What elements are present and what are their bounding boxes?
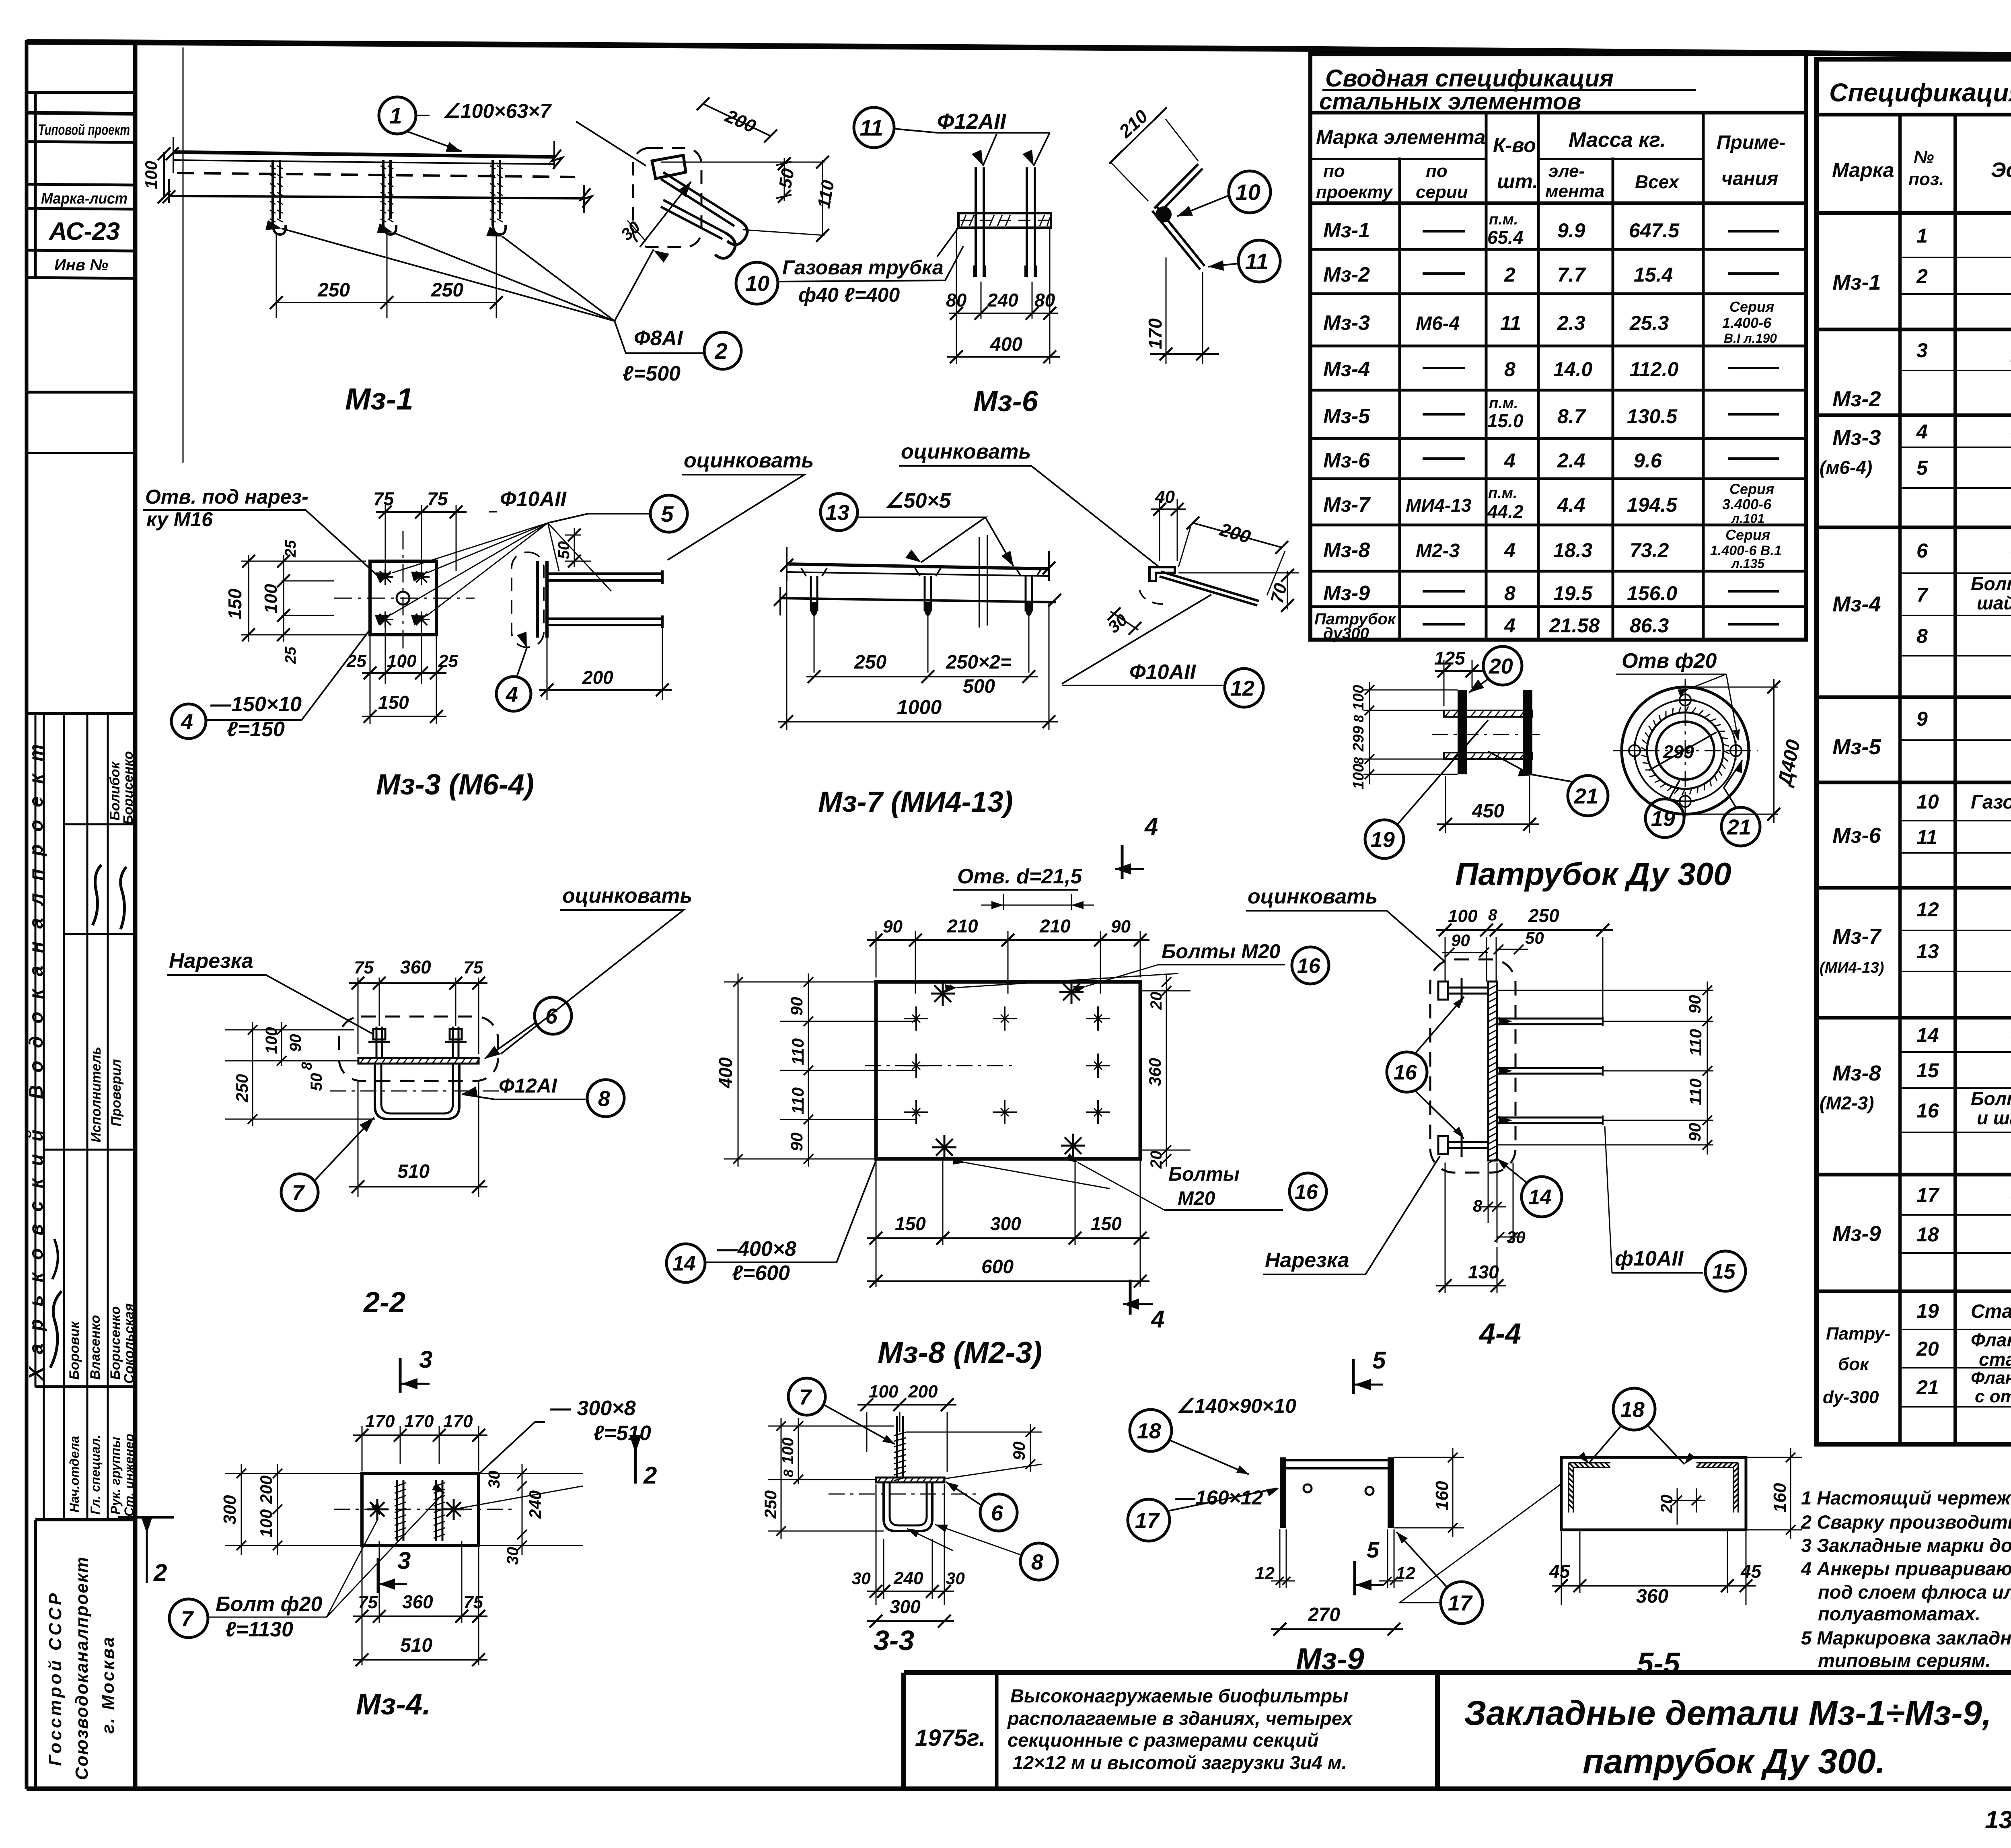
svg-text:200: 200 bbox=[1217, 519, 1253, 547]
svg-text:Отв. под нарез-: Отв. под нарез- bbox=[145, 486, 308, 508]
svg-text:100: 100 bbox=[1350, 764, 1367, 789]
svg-text:44.2: 44.2 bbox=[1487, 501, 1524, 522]
title block divider year/text bbox=[995, 1673, 999, 1789]
4-4 dim 130 bbox=[1445, 1163, 1497, 1293]
svg-text:шайбой: шайбой bbox=[1977, 593, 2011, 613]
svg-text:4: 4 bbox=[506, 682, 518, 706]
svg-text:Мз-1: Мз-1 bbox=[1832, 270, 1881, 294]
svg-text:200: 200 bbox=[257, 1476, 276, 1504]
svg-text:45: 45 bbox=[1740, 1561, 1762, 1582]
svg-text:патрубок Ду 300.: патрубок Ду 300. bbox=[1583, 1742, 1886, 1781]
patrubok centerline bbox=[1432, 734, 1544, 735]
flange centerlines bbox=[1613, 750, 1758, 751]
detail dim 200 slanted bbox=[703, 104, 771, 136]
svg-text:(м6-4): (м6-4) bbox=[1820, 457, 1872, 478]
svg-text:—160×12: —160×12 bbox=[1175, 1486, 1263, 1509]
box divider empty cell bbox=[27, 391, 135, 394]
5-5 weld hatch right corner bbox=[1696, 1463, 1738, 1509]
M3-7 anchor at 2307 bbox=[925, 576, 931, 611]
svg-text:4: 4 bbox=[1504, 449, 1515, 472]
svg-text:Болт М20 с гайкой и: Болт М20 с гайкой и bbox=[1971, 573, 2011, 594]
svg-text:по: по bbox=[1323, 161, 1345, 181]
svg-text:25: 25 bbox=[438, 651, 458, 671]
svg-text:∠100×63×7: ∠100×63×7 bbox=[442, 100, 552, 122]
svg-text:Боровик: Боровик bbox=[67, 1321, 82, 1380]
svg-text:14.0: 14.0 bbox=[1553, 358, 1593, 381]
svg-text:10: 10 bbox=[745, 272, 769, 296]
table1 line below title bbox=[1310, 111, 1806, 115]
svg-text:ф10АII: ф10АII bbox=[1615, 1247, 1684, 1270]
table1 subheader split line left bbox=[1310, 158, 1486, 160]
M3-8 callout 14 + label bbox=[666, 1244, 705, 1282]
detail angle slanted leg top bbox=[661, 172, 738, 226]
svg-text:секционные с размерами секций: секционные с размерами секций bbox=[1008, 1729, 1319, 1751]
svg-text:Болты: Болты bbox=[1168, 1164, 1240, 1185]
svg-text:8: 8 bbox=[298, 1062, 315, 1070]
svg-text:9: 9 bbox=[1916, 708, 1928, 730]
signature table top bbox=[27, 712, 135, 715]
M3-6 rod 1 bbox=[976, 167, 984, 277]
M3-8 big bolt marks bbox=[931, 982, 955, 1006]
svg-text:Инв №: Инв № bbox=[54, 256, 108, 274]
svg-text:150: 150 bbox=[1091, 1213, 1122, 1234]
table1 vertical col lines bbox=[1398, 159, 1401, 640]
svg-text:Мз-5: Мз-5 bbox=[1323, 405, 1370, 428]
5-5 dim 20 bbox=[1677, 1488, 1696, 1525]
signature squiggle3 bbox=[50, 1291, 62, 1368]
svg-text:3 Закладные марки должны быть: 3 Закладные марки должны быть оцинкованы… bbox=[1801, 1535, 2011, 1556]
box divider above 'Типовой проект' bbox=[27, 113, 135, 114]
patrubok callout 19 side bbox=[1365, 820, 1404, 858]
svg-text:Газовая трубка d=40×3,5: Газовая трубка d=40×3,5 bbox=[1971, 792, 2011, 813]
svg-text:dу-300: dу-300 bbox=[1823, 1387, 1879, 1407]
patrubok callout 20 bbox=[1483, 646, 1522, 685]
svg-text:15.0: 15.0 bbox=[1487, 410, 1524, 431]
svg-text:Рук. группы: Рук. группы bbox=[108, 1437, 123, 1515]
svg-text:16: 16 bbox=[1297, 955, 1321, 978]
svg-text:3: 3 bbox=[397, 1547, 411, 1574]
3-3 right dim 90 bbox=[906, 1432, 1042, 1479]
svg-text:20: 20 bbox=[1916, 1338, 1939, 1360]
3-3 dims 30 240 30 bbox=[876, 1484, 944, 1605]
M3-3 dims left 150 100 bbox=[241, 561, 366, 635]
svg-text:170: 170 bbox=[365, 1412, 395, 1431]
M3-8 section mark 4 top bbox=[1121, 845, 1124, 879]
strip inner box column left edge bbox=[34, 93, 37, 278]
5-5 plate outline bbox=[1561, 1457, 1746, 1530]
svg-text:ℓ=1130: ℓ=1130 bbox=[225, 1618, 293, 1641]
svg-text:Мз-6: Мз-6 bbox=[1832, 823, 1881, 848]
svg-text:по: по bbox=[1426, 161, 1448, 181]
svg-text:Союзводоканалпроект: Союзводоканалпроект bbox=[72, 1556, 92, 1780]
Z dim 70 bbox=[1287, 571, 1288, 609]
svg-text:17: 17 bbox=[1135, 1508, 1160, 1533]
DRAWING M3-9 embedded part bbox=[1128, 1347, 1561, 1676]
svg-text:75: 75 bbox=[463, 958, 483, 978]
svg-text:299: 299 bbox=[1350, 726, 1367, 752]
4-4 rods bbox=[1497, 1019, 1603, 1024]
svg-text:30: 30 bbox=[485, 1471, 503, 1489]
svg-text:6: 6 bbox=[991, 1501, 1003, 1525]
2-2 bolt right bbox=[453, 1027, 459, 1058]
TABLE2 steel specification table bbox=[1816, 59, 2011, 1444]
svg-text:21.58: 21.58 bbox=[1549, 614, 1600, 637]
svg-text:9.9: 9.9 bbox=[1557, 219, 1585, 242]
M3-8 small hole crosses bbox=[904, 1006, 928, 1031]
svg-text:600: 600 bbox=[981, 1256, 1014, 1278]
svg-text:200: 200 bbox=[908, 1382, 938, 1401]
svg-text:8: 8 bbox=[1351, 757, 1367, 765]
bent bar elbow weld dot bbox=[1156, 206, 1172, 222]
svg-text:50: 50 bbox=[308, 1073, 325, 1091]
callout circle 10b bbox=[1229, 171, 1271, 213]
M3-6 label gas tube callout 10 bbox=[736, 262, 778, 304]
svg-text:75: 75 bbox=[358, 1593, 378, 1612]
M3-3 leader fan to holes bbox=[391, 523, 611, 615]
svg-text:оцинковать: оцинковать bbox=[901, 440, 1031, 463]
sheet border bottom bbox=[27, 1786, 2011, 1791]
svg-text:2.4: 2.4 bbox=[1557, 449, 1585, 472]
svg-text:30: 30 bbox=[946, 1569, 965, 1588]
DRAWING M3-4 embedded part bbox=[118, 1346, 651, 1721]
svg-text:15: 15 bbox=[1916, 1059, 1939, 1082]
svg-text:5: 5 bbox=[1372, 1347, 1386, 1374]
5-5 weld hatch left corner bbox=[1569, 1463, 1610, 1509]
svg-text:проекту: проекту bbox=[1316, 182, 1393, 202]
M3-7 anchor at 2024 bbox=[811, 576, 817, 611]
M3-3 plate centerlines bbox=[334, 598, 475, 599]
4-4 callout 16 bbox=[1387, 1052, 1427, 1092]
svg-text:Спецификация стали на одно: Спецификация стали на одно изделие bbox=[1829, 78, 2011, 107]
M3-8 callout 16 top bbox=[1292, 947, 1329, 984]
svg-text:19: 19 bbox=[1916, 1300, 1939, 1322]
M3-6 rod 2 bbox=[1027, 167, 1035, 277]
4-4 dim 8 30 below bbox=[1488, 1163, 1497, 1243]
Z angle section bbox=[1149, 567, 1175, 581]
svg-text:110: 110 bbox=[814, 179, 839, 210]
svg-text:90: 90 bbox=[1685, 995, 1704, 1014]
svg-text:Масса кг.: Масса кг. bbox=[1569, 128, 1666, 152]
svg-text:270: 270 bbox=[1308, 1604, 1340, 1626]
DRAWING M3-3 embedded part bbox=[143, 486, 687, 801]
svg-text:бок: бок bbox=[1838, 1354, 1870, 1374]
M3-9 callout 17 right bbox=[1441, 1582, 1483, 1624]
svg-text:Мз-7 (МИ4-13): Мз-7 (МИ4-13) bbox=[818, 786, 1013, 818]
M3-4 anchor stars bbox=[367, 1499, 388, 1520]
svg-text:ℓ=150: ℓ=150 bbox=[227, 718, 285, 741]
4-4 bolt bottom bbox=[1448, 1142, 1488, 1148]
svg-text:1.400-6: 1.400-6 bbox=[1722, 315, 1772, 331]
svg-text:4-4: 4-4 bbox=[1478, 1318, 1521, 1350]
detail hook curl 2 bbox=[715, 233, 735, 258]
svg-text:Патру-: Патру- bbox=[1826, 1324, 1890, 1344]
bottom org box left bbox=[34, 1520, 37, 1789]
svg-text:Ф10АII: Ф10АII bbox=[500, 488, 567, 511]
svg-text:Мз-7: Мз-7 bbox=[1832, 924, 1882, 949]
svg-text:13: 13 bbox=[825, 500, 849, 525]
svg-text:170: 170 bbox=[404, 1412, 434, 1431]
M3-3 dim 75 75 top bbox=[385, 505, 456, 577]
M3-9 right end plate bbox=[1388, 1457, 1394, 1528]
M3-8 dims 90 210 210 90 bbox=[876, 931, 1140, 994]
M3-1 callout circle 2 bbox=[704, 332, 741, 369]
svg-text:4: 4 bbox=[1144, 813, 1158, 840]
svg-text:стали δ=8мм.: стали δ=8мм. bbox=[1979, 1349, 2011, 1370]
3-3 bolt bbox=[897, 1416, 903, 1478]
M3-1 leader lines to anchors bbox=[282, 228, 654, 321]
svg-text:500: 500 bbox=[963, 676, 995, 697]
svg-text:Исполнитель: Исполнитель bbox=[88, 1047, 104, 1142]
signature squiggle2 bbox=[121, 867, 126, 929]
svg-text:2: 2 bbox=[153, 1559, 167, 1586]
svg-text:75: 75 bbox=[427, 488, 448, 509]
box divider bbox=[27, 250, 135, 251]
svg-text:Марка: Марка bbox=[1832, 159, 1894, 181]
3-3 callout 7 bbox=[788, 1378, 825, 1415]
3-3 callout 6 bbox=[980, 1494, 1017, 1531]
svg-text:Газовая трубка: Газовая трубка bbox=[782, 256, 944, 279]
M3-1 angle bar top edge bbox=[173, 152, 554, 157]
DRAWING M3-1 corner detail perspective bbox=[345, 97, 838, 416]
M3-6 plate hatched bbox=[958, 213, 1051, 228]
svg-text:110: 110 bbox=[788, 1087, 807, 1114]
svg-text:Болты М20: Болты М20 bbox=[1162, 940, 1281, 963]
svg-text:80: 80 bbox=[946, 290, 967, 311]
svg-text:Мз-3: Мз-3 bbox=[1832, 426, 1881, 450]
M3-4 section mark 2 left bbox=[118, 1516, 174, 1519]
svg-text:Нач.отдела: Нач.отдела bbox=[67, 1436, 82, 1513]
svg-text:оцинковать: оцинковать bbox=[562, 884, 692, 908]
svg-text:20: 20 bbox=[1147, 1151, 1165, 1169]
svg-text:Мз-9: Мз-9 bbox=[1832, 1222, 1881, 1246]
svg-text:12: 12 bbox=[1916, 898, 1939, 921]
DRAWING section 3-3 bbox=[629, 1378, 1057, 1656]
svg-text:2: 2 bbox=[714, 338, 727, 364]
svg-text:15: 15 bbox=[1712, 1260, 1736, 1284]
svg-text:150: 150 bbox=[224, 589, 245, 619]
2-2 dims left bbox=[225, 1030, 375, 1119]
svg-text:30: 30 bbox=[1104, 610, 1131, 637]
svg-text:п.м.: п.м. bbox=[1489, 211, 1518, 228]
svg-text:80: 80 bbox=[1034, 290, 1055, 311]
svg-text:7: 7 bbox=[181, 1607, 194, 1631]
svg-text:4.4: 4.4 bbox=[1557, 494, 1585, 516]
svg-text:250×2=: 250×2= bbox=[946, 652, 1012, 673]
svg-text:90: 90 bbox=[787, 997, 806, 1016]
bent bar upper arm bbox=[1154, 164, 1203, 213]
DRAWINGS bbox=[118, 97, 1805, 1721]
strip inner edge mid bbox=[35, 714, 37, 1387]
table2 header bottom bbox=[1816, 211, 2011, 215]
detail hook curl 1 bbox=[727, 219, 747, 245]
svg-text:210: 210 bbox=[1114, 105, 1152, 142]
paper fold mark bbox=[183, 47, 184, 463]
svg-text:7: 7 bbox=[799, 1385, 812, 1409]
svg-text:чания: чания bbox=[1721, 168, 1778, 189]
svg-text:АС-23: АС-23 bbox=[48, 218, 120, 245]
signature squiggle4 bbox=[52, 1239, 58, 1279]
svg-text:90: 90 bbox=[1111, 917, 1131, 936]
TABLE1 summary specification table bbox=[1310, 54, 1806, 642]
detail dim 50 bbox=[776, 162, 792, 198]
svg-text:510: 510 bbox=[400, 1635, 432, 1656]
svg-text:В.I л.190: В.I л.190 bbox=[1724, 331, 1777, 346]
detail arrow leader bbox=[640, 182, 691, 247]
2-2 plate hatched bbox=[358, 1058, 479, 1064]
signature row line bbox=[64, 823, 135, 825]
svg-text:под слоем флюса или контактным: под слоем флюса или контактным способом … bbox=[1818, 1581, 2011, 1603]
table1 row lines bbox=[1310, 249, 1806, 607]
svg-text:160: 160 bbox=[1432, 1481, 1452, 1511]
Z leader to label bbox=[1062, 595, 1211, 684]
svg-text:25: 25 bbox=[282, 540, 299, 558]
svg-text:360: 360 bbox=[402, 1591, 433, 1612]
3-3 callout 8 bbox=[1020, 1543, 1057, 1580]
M3-3 dim 50 side bbox=[565, 535, 591, 561]
svg-text:300: 300 bbox=[990, 1213, 1021, 1234]
svg-text:8: 8 bbox=[781, 1469, 796, 1477]
svg-text:Отв ф20: Отв ф20 bbox=[1622, 649, 1717, 673]
svg-text:160: 160 bbox=[1770, 1483, 1790, 1513]
M3-7 left end tick bbox=[780, 547, 787, 615]
svg-text:11: 11 bbox=[1916, 826, 1937, 848]
M3-9 section mark 5 bottom bbox=[1353, 1561, 1356, 1595]
svg-text:Борисенко: Борисенко bbox=[121, 751, 136, 825]
svg-text:30: 30 bbox=[617, 217, 644, 244]
svg-text:Борисенко: Борисенко bbox=[108, 1306, 123, 1380]
svg-text:л.135: л.135 bbox=[1731, 556, 1765, 571]
svg-text:7: 7 bbox=[292, 1181, 305, 1205]
signature row line bbox=[64, 933, 135, 935]
svg-text:8: 8 bbox=[1504, 582, 1515, 605]
detail angle vertical leg bbox=[652, 155, 686, 179]
M3-3 center hole bbox=[397, 592, 409, 605]
LEFTSTRIP bbox=[26, 93, 137, 1789]
2-2 bolt left bbox=[376, 1027, 382, 1058]
flange callout 19 bbox=[1645, 799, 1684, 838]
svg-text:100: 100 bbox=[1350, 685, 1367, 710]
svg-text:Марка-лист: Марка-лист bbox=[41, 190, 127, 207]
svg-text:1975г.: 1975г. bbox=[915, 1725, 985, 1751]
svg-text:100: 100 bbox=[387, 651, 417, 671]
svg-text:8: 8 bbox=[1031, 1550, 1043, 1574]
svg-text:6: 6 bbox=[1916, 539, 1928, 562]
M3-9 channel top plate bbox=[1285, 1460, 1388, 1468]
svg-text:647.5: 647.5 bbox=[1629, 219, 1680, 242]
flange weld serrated ring bbox=[1647, 712, 1723, 789]
M3-1 right break mark bbox=[554, 141, 584, 213]
3-3 dims 100 200 bbox=[867, 1412, 947, 1472]
svg-text:250: 250 bbox=[431, 280, 463, 301]
title block outline bbox=[904, 1673, 2011, 1789]
svg-text:210: 210 bbox=[947, 916, 978, 936]
svg-text:ф40 ℓ=400: ф40 ℓ=400 bbox=[798, 284, 900, 306]
M3-4 dim 510 bbox=[353, 1659, 487, 1661]
table2 thin row lines bbox=[1900, 257, 2011, 1407]
svg-text:50: 50 bbox=[1525, 928, 1544, 947]
svg-text:250: 250 bbox=[854, 652, 886, 673]
svg-text:12: 12 bbox=[1230, 676, 1254, 700]
signature row line bbox=[44, 1149, 135, 1151]
svg-text:Д400: Д400 bbox=[1774, 738, 1805, 789]
flange bolt circle bbox=[1635, 700, 1736, 801]
M3-4 dims 170 170 170 bbox=[362, 1426, 479, 1471]
svg-text:510: 510 bbox=[397, 1161, 430, 1182]
svg-text:90: 90 bbox=[287, 1034, 304, 1052]
svg-text:21: 21 bbox=[1574, 784, 1598, 808]
svg-text:130: 130 bbox=[1468, 1261, 1499, 1282]
M3-8 centerline dashed bbox=[865, 1065, 1014, 1066]
svg-text:с отверстиями ф 20мм: с отверстиями ф 20мм bbox=[1975, 1387, 2011, 1406]
M3-1 anchor at 1234 bbox=[493, 160, 500, 219]
svg-text:21: 21 bbox=[1916, 1376, 1939, 1399]
box divider bbox=[27, 278, 135, 278]
svg-text:130.5: 130.5 bbox=[1627, 405, 1678, 428]
svg-text:20: 20 bbox=[1147, 992, 1165, 1010]
svg-text:эле-: эле- bbox=[1548, 161, 1585, 181]
M3-1 dim line 250/250 bbox=[276, 302, 496, 303]
M3-8 plate outline bbox=[876, 982, 1140, 1159]
svg-text:25: 25 bbox=[282, 646, 299, 664]
svg-text:2 Сварку производить электрода: 2 Сварку производить электродами Э-42 по… bbox=[1801, 1511, 2011, 1533]
M3-1 label Ф8АI l=500 bbox=[615, 321, 703, 353]
patrubok pipe top wall bbox=[1444, 710, 1532, 717]
svg-text:300: 300 bbox=[890, 1596, 921, 1617]
box divider bbox=[27, 184, 135, 185]
M3-9 dim 270 bbox=[1271, 1628, 1403, 1630]
svg-text:Фланец из листовой стали: Фланец из листовой стали bbox=[1971, 1368, 2011, 1388]
svg-text:125: 125 bbox=[1434, 648, 1466, 669]
M3-3 plate plan bbox=[370, 561, 436, 635]
svg-text:100: 100 bbox=[1448, 906, 1478, 926]
M3-4 right dims 30 240 30 bbox=[454, 1473, 583, 1545]
svg-text:110: 110 bbox=[1686, 1029, 1705, 1056]
svg-text:Мз-9: Мз-9 bbox=[1323, 582, 1370, 605]
4-4 callout 14 bbox=[1522, 1177, 1562, 1217]
svg-text:200: 200 bbox=[582, 667, 613, 688]
svg-text:Приме-: Приме- bbox=[1717, 132, 1785, 153]
svg-text:100: 100 bbox=[261, 584, 281, 613]
svg-text:360: 360 bbox=[1636, 1586, 1668, 1607]
Z dim 30 bbox=[1110, 611, 1138, 630]
svg-text:Госстрой СССР: Госстрой СССР bbox=[45, 1591, 65, 1766]
M3-3 callout circle 4 right bbox=[496, 677, 531, 711]
table1 title underline bbox=[1323, 89, 1695, 91]
svg-text:Ф10АII: Ф10АII bbox=[1129, 661, 1196, 684]
svg-text:5: 5 bbox=[1916, 457, 1928, 479]
svg-text:5: 5 bbox=[1367, 1537, 1380, 1562]
svg-text:Болт М20 с гайкой: Болт М20 с гайкой bbox=[1971, 1088, 2011, 1109]
svg-text:2: 2 bbox=[1916, 265, 1928, 288]
table2 vertical lines bbox=[1900, 115, 2011, 1444]
svg-text:∠50×5: ∠50×5 bbox=[885, 489, 951, 512]
M3-1 callout circle 1 bbox=[379, 97, 416, 134]
sheet outer border top bbox=[27, 42, 2011, 60]
5-5 dims 45 360 45 bbox=[1561, 1531, 1746, 1605]
M3-8 dim 400 left bbox=[738, 973, 739, 1167]
svg-text:2: 2 bbox=[643, 1462, 657, 1489]
svg-text:110: 110 bbox=[1686, 1078, 1705, 1105]
M3-9 callout 17 + label bbox=[1128, 1499, 1170, 1541]
svg-text:Эскиз или сечение: Эскиз или сечение bbox=[1991, 158, 2011, 182]
svg-text:17: 17 bbox=[1916, 1184, 1940, 1206]
svg-text:МИ4-13: МИ4-13 bbox=[1406, 495, 1472, 516]
M3-7 break mark bbox=[979, 535, 987, 628]
svg-text:240: 240 bbox=[526, 1490, 545, 1519]
flange callout 21 bbox=[1721, 807, 1760, 846]
svg-text:Серия: Серия bbox=[1725, 527, 1770, 543]
patrubok left dim stack bbox=[1369, 682, 1370, 784]
